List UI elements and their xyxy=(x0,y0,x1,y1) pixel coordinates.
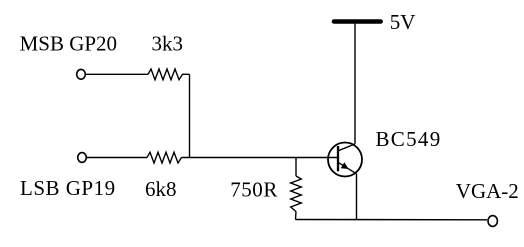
wire output rail xyxy=(296,219,488,221)
resistor R 3k3 xyxy=(148,69,190,80)
wire emitter down to output rail xyxy=(356,174,358,220)
resistor R 6k8 xyxy=(147,152,182,163)
svg-text:3k3: 3k3 xyxy=(152,31,184,55)
transistor emitter arrow xyxy=(341,162,349,169)
svg-text:750R: 750R xyxy=(230,177,278,201)
terminal MSB (open circle) xyxy=(77,69,86,79)
wire 750R bottom to output rail xyxy=(295,212,298,220)
svg-text:5V: 5V xyxy=(390,10,416,34)
resistor R 750R (vertical) xyxy=(291,176,302,212)
terminal VGA-2 (open circle) xyxy=(488,216,497,227)
transistor collector diagonal xyxy=(338,144,355,151)
wire LSB terminal to R 6k8 xyxy=(87,157,147,159)
svg-text:VGA-2: VGA-2 xyxy=(456,179,519,203)
svg-text:BC549: BC549 xyxy=(376,127,442,151)
wire 3k3 down to LSB line xyxy=(189,74,191,157)
wire MSB terminal to R 3k3 xyxy=(86,73,148,75)
power rail 5V bar xyxy=(334,19,381,24)
wire 750R tap down xyxy=(295,158,297,177)
svg-text:LSB GP19: LSB GP19 xyxy=(20,176,116,200)
terminal LSB (open circle) xyxy=(78,153,87,163)
wire 5V to collector xyxy=(354,24,356,144)
transistor Q1 BC549 circle xyxy=(328,143,362,177)
svg-text:6k8: 6k8 xyxy=(145,177,177,201)
svg-text:MSB GP20: MSB GP20 xyxy=(20,31,117,55)
wire summing node to transistor base xyxy=(182,157,338,159)
transistor emitter diagonal xyxy=(338,162,357,174)
transistor base bar xyxy=(337,146,339,171)
